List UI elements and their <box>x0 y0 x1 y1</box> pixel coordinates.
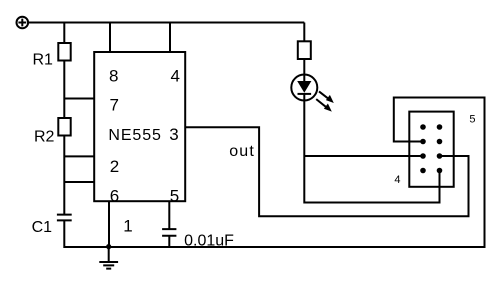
svg-text:3: 3 <box>169 125 178 144</box>
wire LED cathode down and to connector row4 right <box>304 94 439 203</box>
svg-text:out: out <box>229 143 255 160</box>
wire VCC to R1 <box>63 23 65 44</box>
ground <box>99 247 118 269</box>
svg-text:0.01uF: 0.01uF <box>184 233 234 250</box>
capacitor C2 0.01uF <box>162 229 176 236</box>
svg-text:2: 2 <box>110 157 119 176</box>
resistor R1 <box>58 43 70 61</box>
wire R2 to C1 <box>63 136 65 215</box>
svg-text:1: 1 <box>123 216 132 235</box>
wire R3 to LED <box>303 59 305 81</box>
LED D1 <box>291 75 317 101</box>
wire pin 1 to ground <box>108 201 110 246</box>
wire pin 7 stub <box>64 98 94 100</box>
resistor R3 <box>298 41 311 59</box>
svg-text:NE555: NE555 <box>108 127 161 144</box>
wire pin 4 to VCC <box>169 23 171 53</box>
svg-text:5: 5 <box>170 187 179 206</box>
svg-text:R1: R1 <box>33 52 54 69</box>
wire pin 2 stub <box>64 155 94 157</box>
connector J1 body <box>409 112 453 187</box>
wire ground rail: C1 bottom, along bottom, up right side, to connector pin row2 left <box>64 98 484 248</box>
svg-text:C1: C1 <box>32 219 53 236</box>
svg-text:4: 4 <box>171 66 180 85</box>
wire C2 to ground rail <box>168 236 170 247</box>
wire out: pin 3 to connector row3 right <box>185 127 468 216</box>
wire R1 to R2 <box>63 61 65 119</box>
wire LED branch to connector row3 left <box>304 155 423 157</box>
node junction pin1/ground <box>106 244 111 249</box>
wire pin 5 to C2 <box>168 201 170 229</box>
wire pin 8 to VCC <box>109 23 111 53</box>
op-amp U1 NE555 body <box>94 52 185 201</box>
wire VCC top rail <box>28 22 304 24</box>
connector pin dots column 2 <box>437 124 443 173</box>
capacitor C1 <box>57 215 72 221</box>
svg-text:7: 7 <box>110 96 119 115</box>
LED arrow 1 <box>319 91 334 103</box>
svg-text:4: 4 <box>394 174 400 186</box>
svg-text:R2: R2 <box>34 129 55 146</box>
power terminal VCC <box>17 17 29 29</box>
connector pin dots column 1 <box>420 124 426 173</box>
wire pin 6 stub <box>64 181 94 183</box>
resistor R2 <box>58 118 70 136</box>
svg-text:6: 6 <box>110 187 119 206</box>
LED arrow 2 <box>316 99 332 112</box>
wire VCC to R3 <box>303 23 305 42</box>
svg-text:5: 5 <box>469 113 475 125</box>
svg-text:8: 8 <box>109 66 118 85</box>
